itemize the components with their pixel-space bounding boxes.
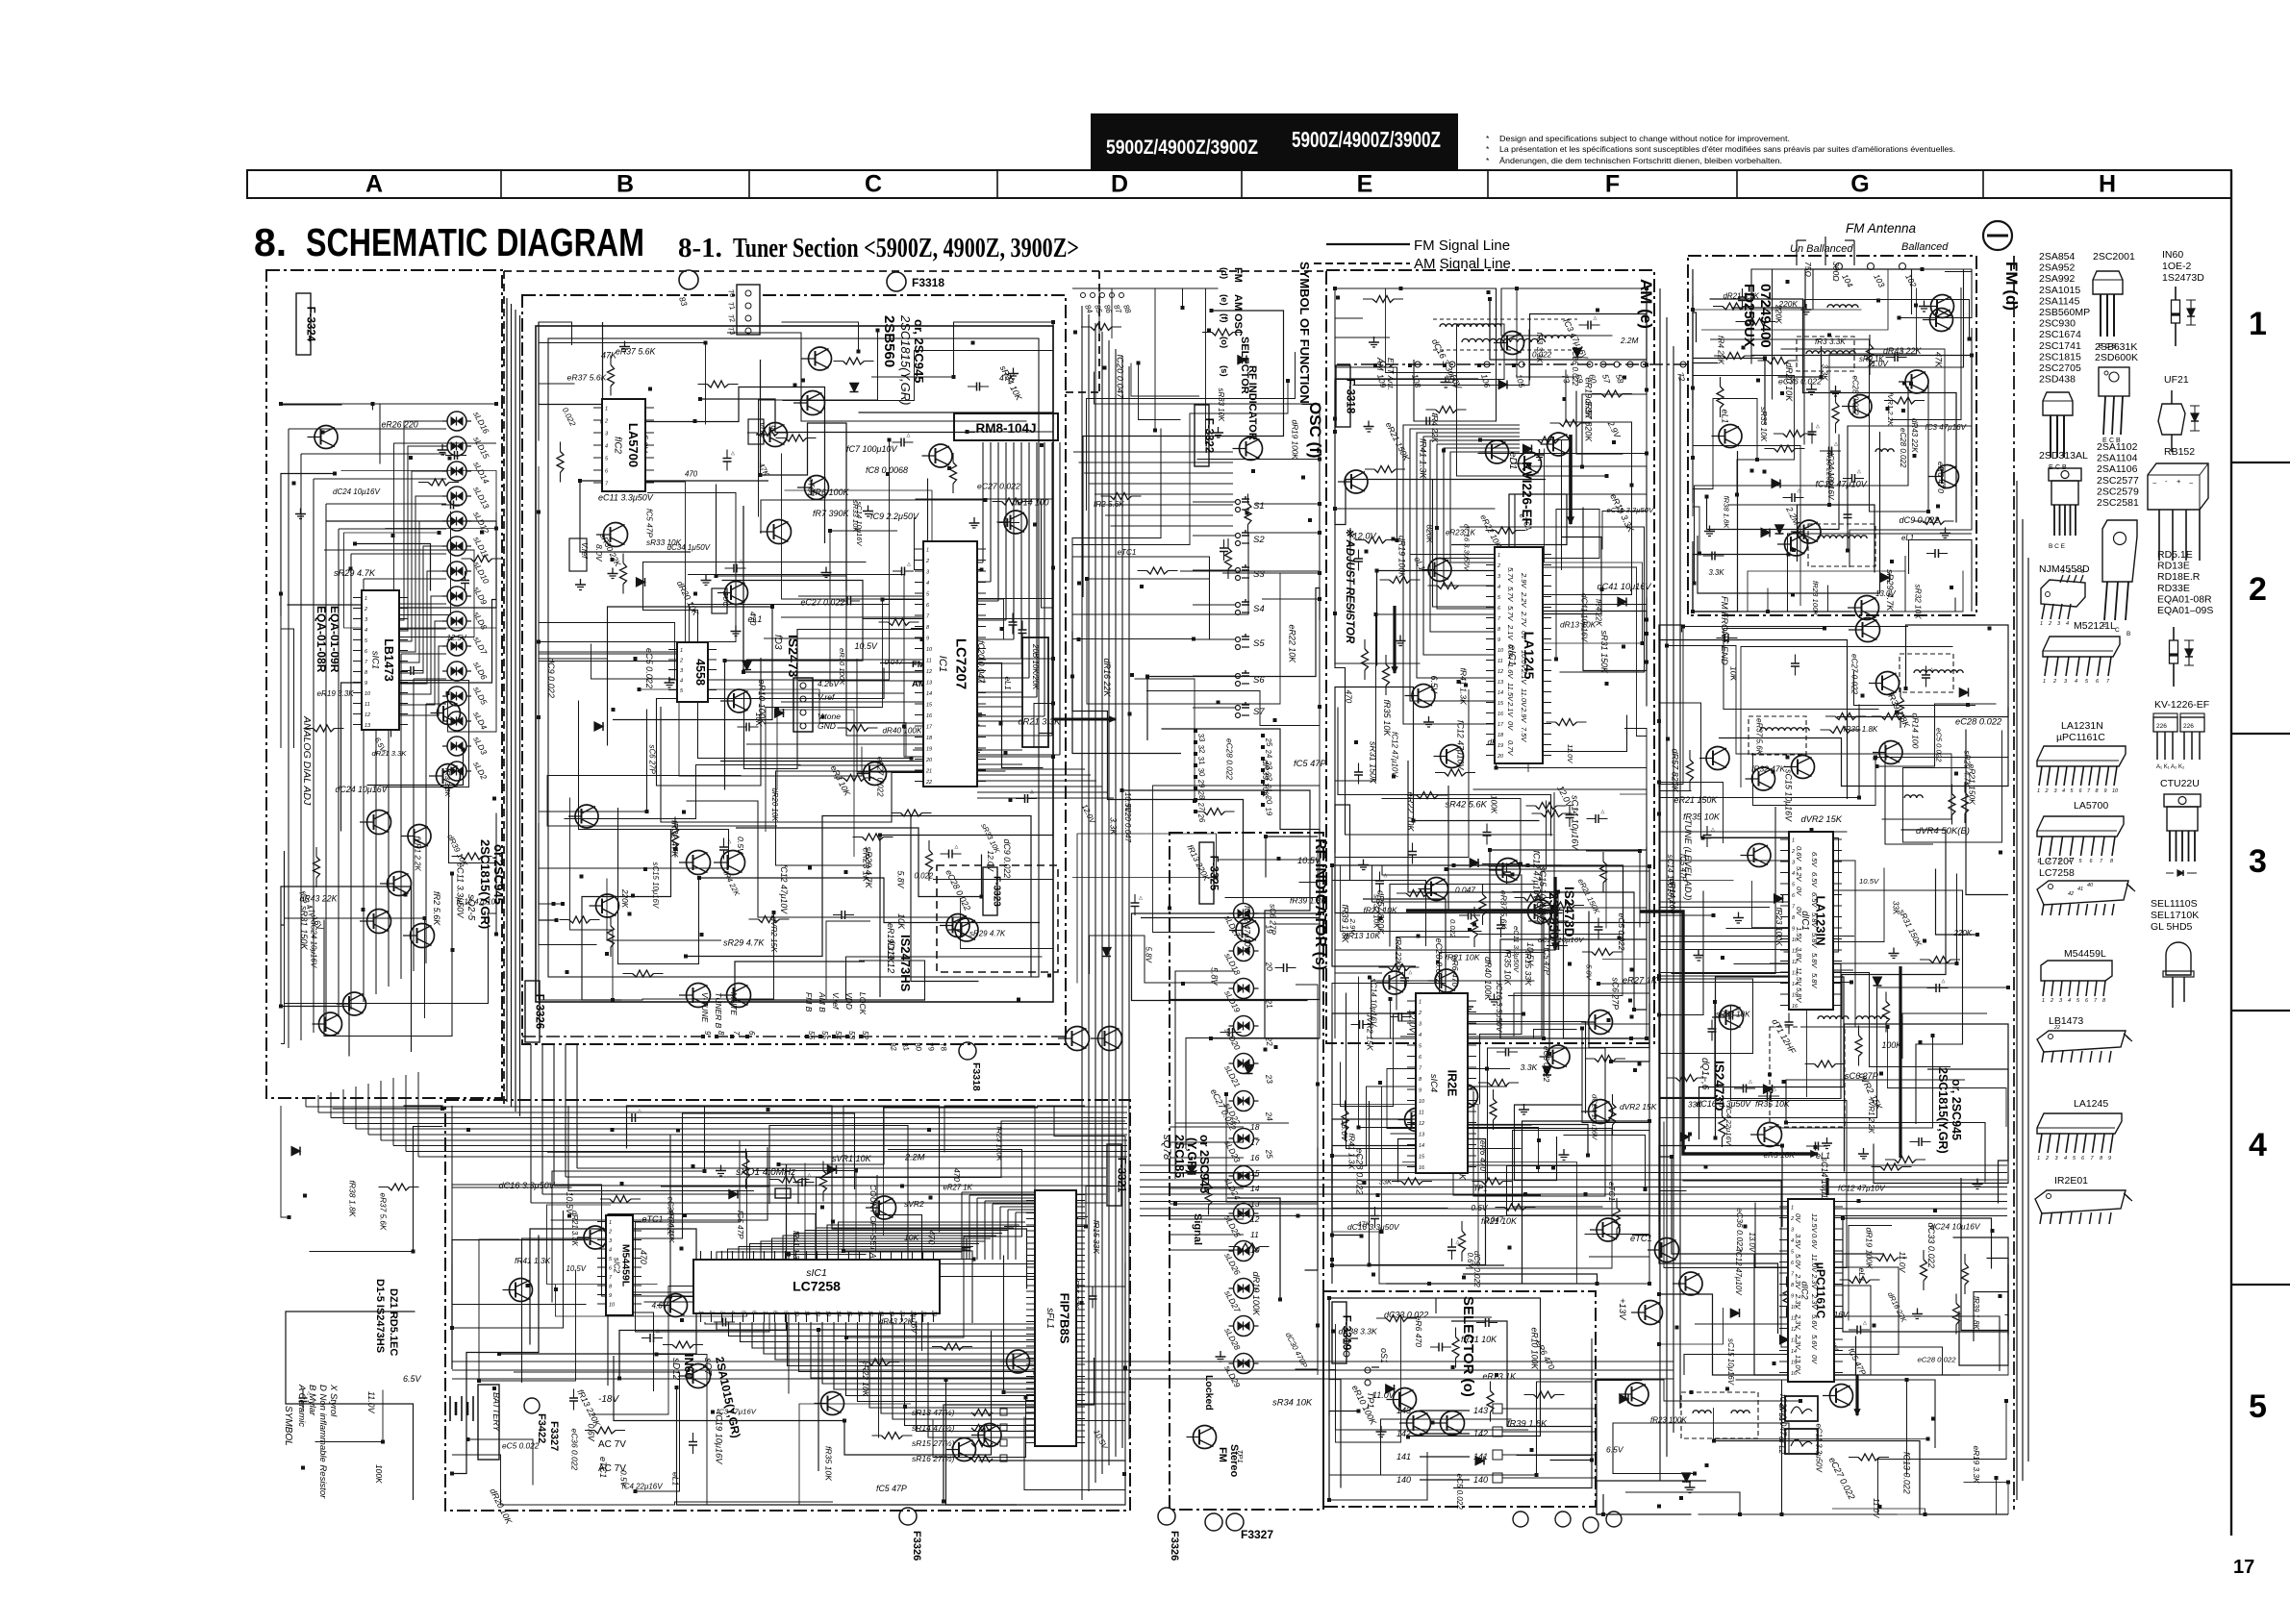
svg-text:A: A — [365, 171, 383, 198]
svg-text:22: 22 — [1264, 1036, 1275, 1047]
svg-text:10.5V: 10.5V — [855, 641, 878, 651]
svg-text:~: ~ — [2152, 479, 2157, 487]
svg-text:FM: FM — [1217, 1447, 1228, 1462]
svg-text:2: 2 — [608, 1230, 612, 1236]
svg-text:dR57 820K: dR57 820K — [1584, 399, 1594, 443]
svg-text:fC20 0.047: fC20 0.047 — [1123, 805, 1132, 843]
svg-text:fC19 10μ16V: fC19 10μ16V — [715, 1412, 724, 1465]
svg-text:140: 140 — [1473, 1475, 1488, 1485]
svg-text:5: 5 — [2249, 1388, 2267, 1425]
svg-text:5900Z/4900Z/3900Z: 5900Z/4900Z/3900Z — [1106, 136, 1258, 159]
svg-text:dC16 3.3μ50V: dC16 3.3μ50V — [499, 1181, 556, 1190]
svg-text:33K: 33K — [1379, 1178, 1393, 1187]
svg-text:2SB560: 2SB560 — [881, 315, 897, 367]
svg-text:IS2473D: IS2473D — [1562, 887, 1576, 937]
svg-text:2SC2581: 2SC2581 — [2097, 497, 2139, 509]
svg-text:△: △ — [731, 451, 735, 457]
svg-text:15: 15 — [926, 703, 933, 709]
svg-text:6.5V: 6.5V — [1810, 892, 1819, 908]
svg-text:SEL1110S: SEL1110S — [2151, 898, 2198, 910]
svg-text:4558: 4558 — [693, 659, 707, 686]
svg-text:(s): (s) — [1219, 365, 1229, 377]
svg-text:2: 2 — [679, 659, 683, 664]
svg-text:sQ7: sQ7 — [702, 1358, 713, 1376]
svg-text:RM8-104J: RM8-104J — [975, 421, 1036, 436]
svg-text:140: 140 — [1397, 1475, 1411, 1485]
svg-text:F3318: F3318 — [912, 276, 944, 289]
svg-text:B C E: B C E — [2049, 543, 2066, 550]
svg-text:470: 470 — [748, 612, 758, 626]
svg-text:GL 5HD5: GL 5HD5 — [2151, 921, 2193, 933]
svg-text:2: 2 — [2045, 1156, 2049, 1162]
svg-text:10.5V: 10.5V — [566, 1264, 587, 1273]
svg-text:9: 9 — [1419, 1088, 1422, 1094]
svg-text:2SA1015: 2SA1015 — [2039, 285, 2080, 296]
svg-text:2SA1106: 2SA1106 — [2097, 463, 2138, 475]
svg-text:2: 2 — [604, 419, 608, 425]
svg-text:eC28 0.022: eC28 0.022 — [1225, 738, 1235, 780]
svg-text:Tuner Section <5900Z, 4900Z, 3: Tuner Section <5900Z, 4900Z, 3900Z> — [733, 233, 1079, 263]
svg-text:20: 20 — [1264, 961, 1275, 972]
svg-text:+13V: +13V — [1617, 1298, 1627, 1321]
svg-text:100K: 100K — [374, 1464, 384, 1484]
svg-text:6.5V: 6.5V — [403, 1374, 421, 1384]
svg-text:sVR1 10K: sVR1 10K — [832, 1154, 872, 1163]
svg-text:eR19 3.3K: eR19 3.3K — [317, 689, 355, 698]
svg-text:3.3K: 3.3K — [1709, 568, 1725, 577]
svg-text:RB152: RB152 — [2164, 446, 2195, 458]
svg-text:5.8V: 5.8V — [1810, 953, 1819, 968]
svg-text:eC36 0.022: eC36 0.022 — [1735, 1208, 1745, 1251]
svg-text:-18V: -18V — [598, 1394, 619, 1405]
svg-text:~: ~ — [2189, 479, 2194, 487]
svg-text:226: 226 — [2156, 723, 2167, 730]
svg-text:fC3 47μ16V: fC3 47μ16V — [1925, 423, 1967, 432]
svg-text:△: △ — [1139, 895, 1143, 901]
svg-text:TP1: TP1 — [1366, 1392, 1375, 1409]
svg-text:(f): (f) — [1219, 313, 1229, 323]
svg-text:fC12 47μ10V: fC12 47μ10V — [1456, 720, 1466, 770]
svg-text:13: 13 — [1419, 1133, 1425, 1138]
svg-text:1: 1 — [1497, 553, 1500, 559]
svg-text:fC5 47P: fC5 47P — [736, 1211, 744, 1239]
svg-text:2: 2 — [2045, 788, 2049, 794]
svg-text:dR19 100K: dR19 100K — [1251, 1272, 1261, 1317]
svg-text:16: 16 — [1497, 712, 1504, 717]
svg-text:BATTERY: BATTERY — [491, 1392, 501, 1433]
svg-text:dR57 820K: dR57 820K — [1671, 749, 1680, 793]
svg-text:5.7V: 5.7V — [1506, 567, 1515, 583]
svg-text:5.6V: 5.6V — [1810, 1335, 1819, 1350]
svg-text:RD18E.R: RD18E.R — [2157, 571, 2201, 583]
svg-text:FM Antenna: FM Antenna — [1846, 221, 1917, 236]
svg-text:sR31 150K: sR31 150K — [1599, 631, 1609, 675]
svg-text:LC7258: LC7258 — [793, 1279, 841, 1294]
svg-text:eR19 3.3K: eR19 3.3K — [1972, 1446, 1980, 1484]
svg-text:4: 4 — [730, 1311, 736, 1313]
svg-text:9: 9 — [2108, 1156, 2111, 1162]
svg-text:0.7V: 0.7V — [1506, 740, 1515, 756]
svg-text:dC9 0.022: dC9 0.022 — [1002, 839, 1012, 879]
svg-text:△: △ — [638, 1109, 642, 1114]
svg-text:10: 10 — [1419, 1099, 1425, 1105]
svg-text:1: 1 — [609, 1220, 612, 1226]
svg-text:fR35 10K: fR35 10K — [824, 1446, 834, 1482]
svg-text:AM B: AM B — [818, 991, 827, 1012]
svg-text:23: 23 — [1264, 1073, 1275, 1085]
svg-text:1: 1 — [2037, 788, 2040, 794]
svg-text:17: 17 — [2233, 1557, 2254, 1578]
svg-text:dR21 3.3K: dR21 3.3K — [372, 749, 408, 758]
svg-text:1: 1 — [605, 407, 608, 412]
svg-text:20: 20 — [925, 758, 933, 763]
svg-text:1: 1 — [926, 548, 929, 554]
svg-text:31: 31 — [1196, 756, 1206, 765]
svg-text:3.3K: 3.3K — [1521, 1062, 1539, 1072]
svg-text:470: 470 — [685, 470, 698, 479]
svg-text:LOCK: LOCK — [858, 992, 868, 1014]
svg-text:4: 4 — [609, 1248, 612, 1254]
svg-text:dR43 22K: dR43 22K — [1910, 418, 1919, 453]
svg-text:17: 17 — [1497, 722, 1504, 728]
svg-text:B Mylar: B Mylar — [307, 1385, 317, 1416]
svg-text:16: 16 — [1250, 1153, 1260, 1162]
svg-text:dR19 100K: dR19 100K — [1291, 420, 1299, 461]
svg-text:fR6 100K: fR6 100K — [813, 487, 850, 497]
svg-text:△: △ — [808, 1173, 812, 1179]
svg-text:AM: AM — [1232, 294, 1244, 311]
svg-text:40: 40 — [2087, 883, 2094, 888]
svg-text:0V: 0V — [1506, 721, 1515, 731]
svg-text:13.0V: 13.0V — [1794, 1355, 1802, 1375]
svg-text:220K: 220K — [1774, 304, 1784, 324]
svg-text:13: 13 — [365, 723, 371, 729]
svg-text:10: 10 — [609, 1303, 616, 1309]
svg-text:△: △ — [1816, 424, 1820, 430]
svg-text:dR20 10K: dR20 10K — [1784, 362, 1794, 402]
svg-text:07249400: 07249400 — [1757, 284, 1774, 348]
svg-text:47K: 47K — [999, 373, 1016, 383]
svg-text:22: 22 — [925, 780, 932, 786]
svg-text:fR4 22K: fR4 22K — [1394, 937, 1403, 967]
svg-text:11.0V: 11.0V — [366, 1391, 376, 1414]
svg-text:2.3V: 2.3V — [1794, 1293, 1802, 1310]
svg-text:4: 4 — [2066, 621, 2069, 627]
svg-text:19: 19 — [1497, 743, 1503, 749]
svg-text:eR37 5.6K: eR37 5.6K — [567, 373, 608, 383]
svg-text:F3326: F3326 — [1169, 1531, 1180, 1561]
svg-text:SEL1710K: SEL1710K — [2151, 910, 2199, 921]
svg-text:fR39 1.8K: fR39 1.8K — [1341, 905, 1350, 944]
svg-text:24: 24 — [1264, 1111, 1275, 1122]
svg-text:5.6V: 5.6V — [1810, 1314, 1819, 1330]
svg-text:fC20 0.047: fC20 0.047 — [1116, 355, 1125, 400]
svg-text:eC5 0.022: eC5 0.022 — [1455, 1474, 1464, 1511]
svg-text:dR43 22K: dR43 22K — [300, 894, 339, 904]
svg-text:dC24 10μ16V: dC24 10μ16V — [1930, 1222, 1981, 1232]
svg-text:10: 10 — [2112, 788, 2119, 794]
svg-text:fR38 1.8K: fR38 1.8K — [348, 1181, 358, 1217]
svg-text:2.2M: 2.2M — [1620, 337, 1638, 345]
svg-text:10K: 10K — [1729, 666, 1739, 683]
svg-text:SYMBOL: SYMBOL — [283, 1406, 293, 1446]
svg-text:2.7V: 2.7V — [1520, 611, 1528, 627]
svg-text:5900Z/4900Z/3900Z: 5900Z/4900Z/3900Z — [1292, 127, 1441, 152]
svg-text:11.0V: 11.0V — [1520, 688, 1528, 708]
svg-text:dR43 22K: dR43 22K — [879, 1317, 914, 1326]
svg-text:eC28 0.022: eC28 0.022 — [1899, 428, 1907, 468]
svg-text:G: G — [1850, 171, 1869, 198]
svg-text:fD3: fD3 — [772, 635, 783, 650]
svg-text:EQA01-08R: EQA01-08R — [2157, 594, 2212, 606]
svg-text:IS2473: IS2473 — [786, 635, 801, 678]
svg-text:10: 10 — [1497, 648, 1504, 654]
svg-text:0.022: 0.022 — [1448, 919, 1457, 938]
svg-text:F-3323: F-3323 — [992, 876, 1002, 907]
svg-text:0.047: 0.047 — [1455, 886, 1475, 895]
svg-text:fR32 47K: fR32 47K — [1751, 764, 1786, 774]
svg-text:12: 12 — [1419, 1121, 1424, 1127]
svg-text:CTU22U: CTU22U — [2160, 778, 2200, 789]
svg-text:4: 4 — [605, 444, 608, 450]
svg-text:dR16 22K: dR16 22K — [1102, 659, 1112, 698]
svg-text:0V: 0V — [1794, 1213, 1802, 1223]
svg-text:12.5V: 12.5V — [447, 634, 467, 642]
svg-text:2.9V: 2.9V — [1520, 707, 1528, 723]
svg-text:RF INDICATOR: RF INDICATOR — [1246, 365, 1258, 440]
svg-text:fR21 10K: fR21 10K — [1481, 1216, 1518, 1226]
svg-text:2: 2 — [1497, 563, 1500, 569]
svg-text:LA5700: LA5700 — [626, 423, 641, 467]
svg-text:0V: 0V — [1810, 1355, 1819, 1364]
svg-text:14: 14 — [1250, 1184, 1260, 1193]
svg-text:fC9 2.2μ50V: fC9 2.2μ50V — [870, 512, 919, 521]
svg-text:sR29 4.7K: sR29 4.7K — [969, 930, 1006, 938]
svg-text:4: 4 — [1419, 1033, 1422, 1038]
svg-text:2.3V: 2.3V — [1794, 1334, 1802, 1350]
svg-text:sR34 10K: sR34 10K — [1272, 1398, 1313, 1408]
svg-text:5.2V: 5.2V — [1795, 866, 1803, 882]
svg-text:M52121L: M52121L — [2074, 620, 2116, 632]
svg-text:1: 1 — [1791, 1206, 1794, 1212]
svg-text:dC41 10μ16V: dC41 10μ16V — [1598, 582, 1652, 591]
svg-text:2: 2 — [1790, 1216, 1794, 1222]
svg-text:1OE-2: 1OE-2 — [2162, 261, 2192, 272]
svg-text:9: 9 — [1792, 927, 1795, 933]
svg-text:fC12 47μ10V: fC12 47μ10V — [1734, 1250, 1743, 1297]
svg-text:SCHEMATIC DIAGRAM: SCHEMATIC DIAGRAM — [306, 220, 644, 264]
svg-text:16: 16 — [1419, 1165, 1425, 1171]
svg-text:△: △ — [460, 446, 464, 452]
svg-text:fC12 47μ10V: fC12 47μ10V — [779, 864, 789, 914]
svg-text:dVR2 15K: dVR2 15K — [1620, 1102, 1657, 1112]
svg-text:220K: 220K — [620, 888, 629, 909]
svg-text:sIC2: sIC2 — [613, 1258, 621, 1274]
svg-text:Design and specifications subj: Design and specifications subject to cha… — [1499, 134, 1790, 143]
svg-text:AC 7V: AC 7V — [598, 1439, 626, 1450]
svg-text:Ballanced: Ballanced — [1901, 241, 1949, 253]
svg-text:2SA1104: 2SA1104 — [2097, 453, 2138, 464]
svg-text:9: 9 — [1497, 637, 1500, 643]
svg-text:Änderungen, die dem technische: Änderungen, die dem technischen Fortschr… — [1499, 156, 1782, 165]
svg-text:2.1V: 2.1V — [1506, 624, 1515, 640]
svg-text:2SC2001: 2SC2001 — [2093, 251, 2135, 262]
svg-text:eL1: eL1 — [1003, 677, 1013, 690]
svg-text:20: 20 — [1497, 754, 1504, 760]
svg-text:EQA-01-09R: EQA-01-09R — [328, 606, 341, 673]
svg-text:IC1: IC1 — [937, 656, 948, 673]
svg-text:4: 4 — [1497, 585, 1500, 590]
svg-text:fR41 1.3K: fR41 1.3K — [515, 1256, 551, 1265]
svg-text:La présentation et les spécifi: La présentation et les spécifications so… — [1499, 144, 1955, 154]
svg-text:eR22 10K: eR22 10K — [1288, 625, 1297, 664]
svg-text:fC12 47μ10V: fC12 47μ10V — [1816, 480, 1868, 489]
svg-text:eTC1: eTC1 — [1118, 548, 1137, 557]
svg-text:0.022: 0.022 — [915, 872, 934, 881]
svg-text:RD5.1E: RD5.1E — [2157, 549, 2193, 561]
svg-text:FM: FM — [1232, 267, 1244, 283]
svg-text:sFL1: sFL1 — [1044, 1308, 1055, 1329]
svg-text:10.0V: 10.0V — [1520, 650, 1528, 670]
svg-text:H: H — [2099, 171, 2116, 198]
svg-text:4: 4 — [2064, 1156, 2067, 1162]
svg-text:4: 4 — [2062, 788, 2065, 794]
svg-text:OSC: OSC — [1232, 313, 1244, 337]
svg-text:dC16 3.3μ50V: dC16 3.3μ50V — [1347, 1222, 1400, 1232]
svg-text:dR20 10K: dR20 10K — [770, 788, 779, 823]
svg-text:dC16 3.3μ50V: dC16 3.3μ50V — [1495, 981, 1504, 1034]
svg-text:dC9 0.022: dC9 0.022 — [546, 658, 556, 698]
svg-text:10: 10 — [365, 691, 371, 697]
svg-text:11: 11 — [1250, 1230, 1259, 1239]
svg-text:V.ref: V.ref — [580, 542, 589, 559]
svg-text:eL1: eL1 — [671, 1472, 681, 1487]
svg-text:2SA952: 2SA952 — [2039, 262, 2076, 274]
svg-text:sC15 10μ16V: sC15 10μ16V — [651, 862, 660, 909]
svg-text:0.047: 0.047 — [885, 658, 904, 666]
svg-text:13: 13 — [926, 681, 933, 687]
svg-text:eC28 0.022: eC28 0.022 — [1918, 1356, 1957, 1364]
svg-text:0.0N: 0.0N — [1506, 644, 1515, 660]
svg-text:11.0V: 11.0V — [1810, 1254, 1819, 1273]
svg-text:dR38 3.3K: dR38 3.3K — [1339, 1327, 1377, 1337]
svg-text:E: E — [1357, 171, 1373, 198]
svg-text:RD33E: RD33E — [2157, 583, 2190, 594]
svg-text:5.8V: 5.8V — [896, 871, 906, 889]
svg-text:12: 12 — [365, 712, 370, 718]
svg-text:22: 22 — [2053, 1025, 2060, 1031]
svg-text:dC24 10μ16V: dC24 10μ16V — [333, 487, 380, 496]
svg-text:3.5V: 3.5V — [1794, 1234, 1802, 1249]
svg-text:+: + — [2177, 477, 2181, 486]
svg-text:sIC1: sIC1 — [371, 651, 381, 669]
svg-text:5.8V: 5.8V — [1810, 912, 1819, 928]
svg-text:4: 4 — [365, 628, 367, 634]
svg-text:5.7V: 5.7V — [1506, 606, 1515, 621]
svg-text:4: 4 — [2249, 1127, 2267, 1163]
svg-text:2SC1674: 2SC1674 — [2039, 329, 2081, 340]
svg-text:sC14 10μ16V: sC14 10μ16V — [855, 502, 864, 547]
svg-text:dQ1,-,6: dQ1,-,6 — [1699, 1058, 1710, 1090]
svg-text:fR15 33K: fR15 33K — [1092, 1220, 1101, 1254]
svg-text:0.6V: 0.6V — [1466, 1253, 1474, 1269]
svg-text:eTC1: eTC1 — [598, 1457, 608, 1478]
svg-text:sR31 150K: sR31 150K — [1369, 741, 1378, 785]
svg-text:dR40 100K: dR40 100K — [1483, 957, 1493, 1001]
svg-text:12.0V: 12.0V — [986, 851, 994, 873]
svg-text:2.3V: 2.3V — [1810, 1273, 1819, 1289]
svg-text:11: 11 — [926, 659, 932, 664]
svg-text:IR2E01: IR2E01 — [2054, 1175, 2088, 1187]
svg-text:2.3V: 2.3V — [1794, 1313, 1802, 1330]
svg-text:F3327: F3327 — [1241, 1528, 1273, 1541]
svg-text:D: D — [1111, 171, 1128, 198]
svg-text:sC6 27P: sC6 27P — [648, 745, 657, 775]
svg-text:9: 9 — [365, 681, 367, 687]
svg-text:2: 2 — [2048, 621, 2051, 627]
svg-text:5.7V: 5.7V — [1506, 587, 1515, 602]
svg-text:5.8V: 5.8V — [1810, 973, 1819, 988]
svg-text:19: 19 — [926, 747, 932, 753]
svg-text:S5: S5 — [1253, 638, 1265, 649]
svg-text:2.1V: 2.1V — [1520, 668, 1528, 685]
svg-text:△: △ — [1857, 469, 1861, 475]
svg-text:Un Ballanced: Un Ballanced — [1790, 243, 1853, 255]
svg-text:sR42 5.6K: sR42 5.6K — [1446, 800, 1488, 810]
svg-text:sR33 10K: sR33 10K — [1759, 407, 1768, 442]
svg-text:1: 1 — [1419, 1000, 1422, 1006]
svg-text:3: 3 — [2249, 843, 2267, 880]
svg-text:9: 9 — [609, 1293, 612, 1299]
svg-text:10.5V: 10.5V — [1859, 877, 1879, 886]
svg-text:eC36 0.022: eC36 0.022 — [570, 1429, 580, 1471]
svg-text:fC7 100μ10V: fC7 100μ10V — [846, 444, 897, 454]
svg-text:fR35 10K: fR35 10K — [1382, 700, 1392, 737]
svg-text:TUNER B: TUNER B — [714, 992, 723, 1029]
svg-text:2.2V: 2.2V — [1520, 591, 1528, 608]
svg-text:LA1245: LA1245 — [2074, 1098, 2108, 1110]
svg-text:7.5V: 7.5V — [1520, 727, 1528, 742]
svg-text:2SA992: 2SA992 — [2039, 273, 2076, 285]
svg-text:11.5V: 11.5V — [1795, 967, 1803, 987]
svg-text:2: 2 — [925, 559, 929, 564]
svg-text:S4: S4 — [1253, 604, 1265, 614]
svg-text:2SA1145: 2SA1145 — [2039, 296, 2080, 308]
svg-text:1: 1 — [2040, 621, 2043, 627]
svg-text:2SD600K: 2SD600K — [2095, 352, 2138, 363]
svg-text:eC11 3.3μ50V: eC11 3.3μ50V — [1512, 926, 1521, 973]
svg-text:fR41 1.3K: fR41 1.3K — [1347, 1134, 1357, 1170]
svg-text:fR39 1.8K: fR39 1.8K — [1290, 896, 1327, 906]
svg-text:LC7207: LC7207 — [953, 638, 969, 689]
svg-text:fC12 47μ10V: fC12 47μ10V — [1838, 1184, 1886, 1193]
svg-text:sC14 10μ16V: sC14 10μ16V — [1370, 979, 1378, 1028]
svg-text:sC14 10μ16V: sC14 10μ16V — [1571, 795, 1580, 850]
svg-text:KV-1226-EF: KV-1226-EF — [2154, 699, 2209, 711]
svg-text:eC11 3.3μ50V: eC11 3.3μ50V — [1815, 1424, 1824, 1473]
svg-text:6.5V: 6.5V — [1606, 1445, 1624, 1455]
svg-text:RD13E: RD13E — [2157, 561, 2190, 572]
svg-text:0V: 0V — [1795, 887, 1803, 896]
svg-text:△: △ — [1409, 970, 1413, 976]
svg-text:UF21: UF21 — [2164, 374, 2189, 386]
svg-text:1.5V: 1.5V — [1795, 927, 1803, 942]
svg-text:dC24 10μ16V: dC24 10μ16V — [336, 785, 389, 794]
svg-text:sR32 10K: sR32 10K — [1914, 585, 1923, 620]
svg-text:fR38 1.8K: fR38 1.8K — [1723, 496, 1731, 530]
svg-text:5.8V: 5.8V — [1210, 967, 1220, 986]
svg-text:1: 1 — [680, 648, 683, 654]
